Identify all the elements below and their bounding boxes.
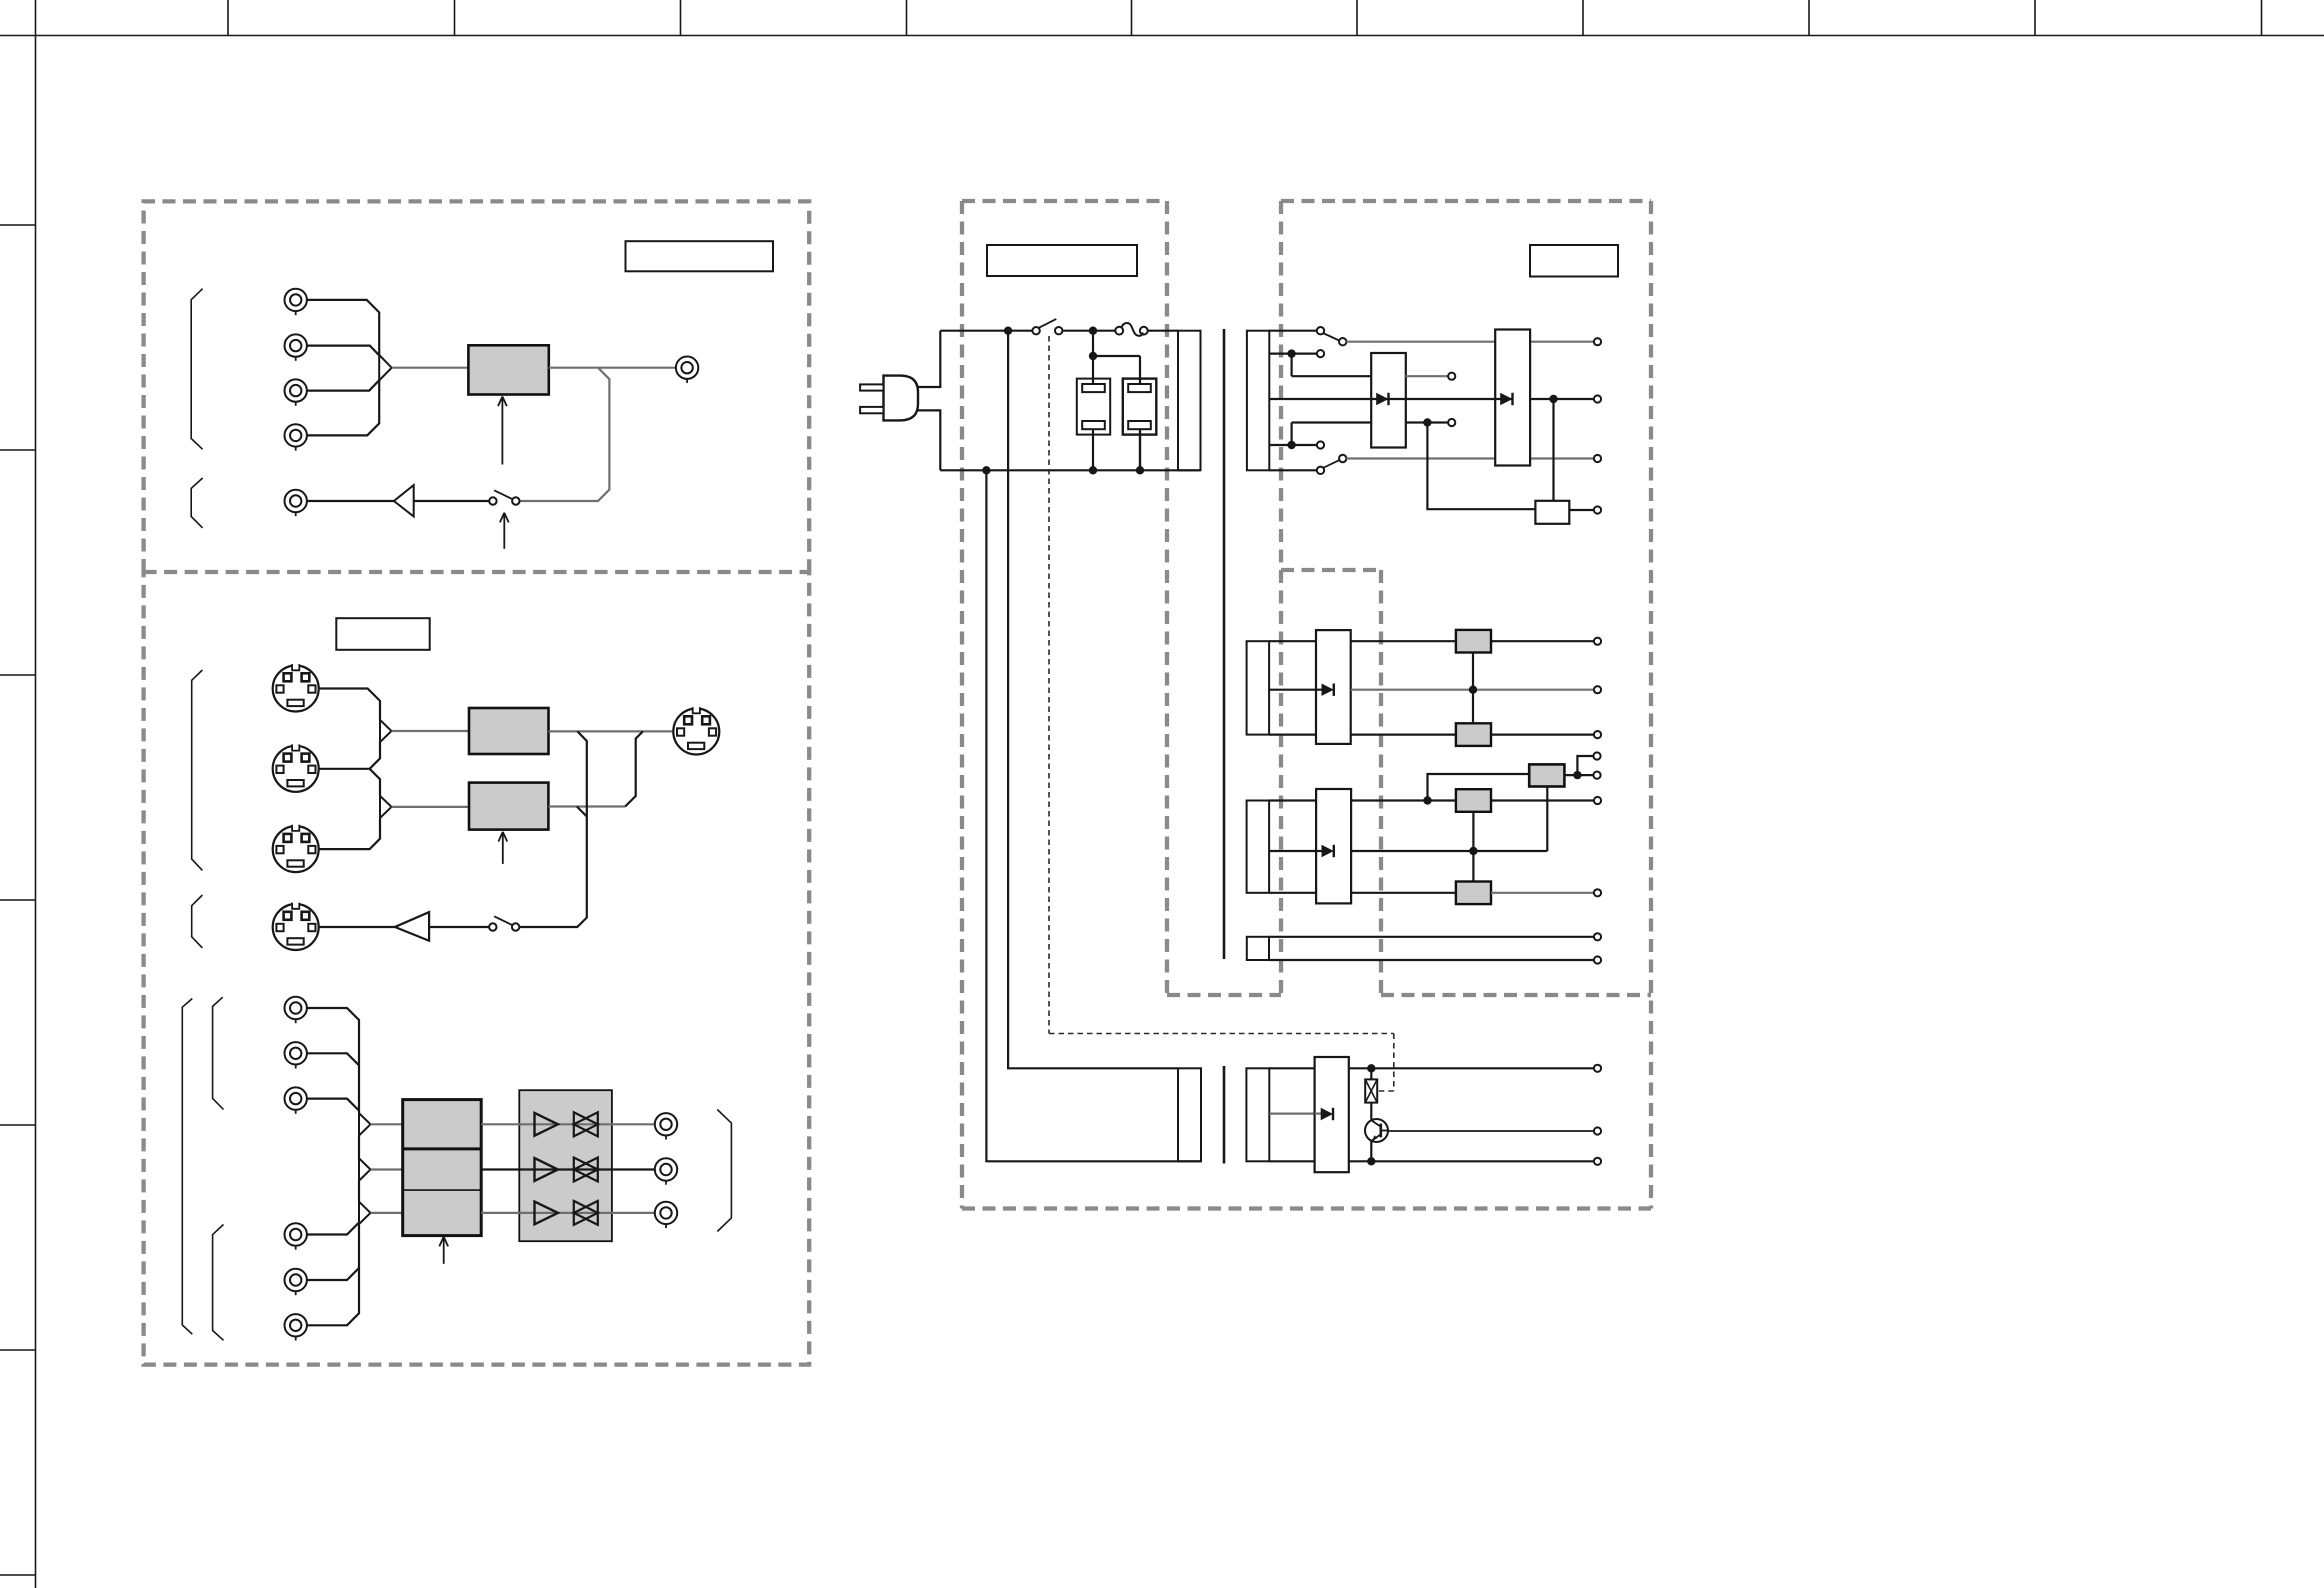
wire: D3 centre out xyxy=(1351,689,1594,691)
wire: rec switch to S buffer xyxy=(429,926,489,928)
junction: regulator D out xyxy=(1573,771,1581,779)
wire: secondary4 top out xyxy=(1269,936,1593,938)
wire: surge absorber feed xyxy=(1093,331,1140,384)
wire: C to out join xyxy=(625,731,643,806)
transistor Q1 xyxy=(1365,1119,1388,1161)
RCA jack: video monitor out xyxy=(676,357,698,383)
wire: S input 2 split to selectors xyxy=(319,742,380,796)
junction: D2 output xyxy=(1549,395,1557,403)
RCA jack: video input 4 xyxy=(285,424,307,450)
rectifier block D4 xyxy=(1316,789,1351,903)
bus wire: component selector bus xyxy=(358,1136,360,1202)
selector merge symbol: component Pb xyxy=(359,1158,371,1180)
S-video jack: input 3 xyxy=(273,825,319,872)
regulator box D xyxy=(1529,764,1564,786)
RCA jack: component input B3 xyxy=(285,1314,307,1340)
terminal: tap 2 xyxy=(1317,350,1324,357)
wire: secondary3 centre (into rectifier) xyxy=(1269,850,1547,852)
buffer amp: component Y xyxy=(535,1113,558,1136)
wire: video input 2 to selector bus xyxy=(307,346,379,356)
wire: secondary1 top tap xyxy=(1269,330,1317,332)
buffer amp: S-video rec out xyxy=(395,912,429,941)
wire: T2 secondary bottom xyxy=(1269,1160,1593,1162)
terminal: secondary2 bottom out xyxy=(1594,731,1601,738)
wire: filter link secondary3 xyxy=(1472,812,1474,882)
RCA jack: component input A3 xyxy=(285,1087,307,1113)
diode: D4 xyxy=(1316,845,1334,857)
wire: S input 3 to selector bus xyxy=(319,818,380,849)
junction: tap 2 xyxy=(1287,349,1295,357)
wire: component Y output row xyxy=(481,1123,655,1125)
wire: component input A2 to bus xyxy=(307,1053,359,1065)
terminal: secondary4 bottom xyxy=(1594,956,1601,963)
brace: S-video inputs group xyxy=(192,670,203,870)
wire: C selector to switch block xyxy=(392,806,470,808)
wire: AC line top xyxy=(940,330,1178,332)
wire: secondary3 bottom xyxy=(1269,892,1456,894)
RCA jack: video input 3 xyxy=(285,379,307,405)
terminal: regulator out xyxy=(1594,506,1601,513)
terminal: regulator D out upper xyxy=(1593,752,1600,759)
regulator box xyxy=(1535,501,1593,524)
wire: Q1 base out xyxy=(1388,1130,1593,1132)
filter box: secondary3 top xyxy=(1456,789,1491,812)
transformer T2 core xyxy=(1223,1066,1226,1164)
transformer T1 secondary winding 4 xyxy=(1247,937,1269,960)
wire: component Pr output row xyxy=(481,1212,655,1214)
RCA jack: component input B1 xyxy=(285,1223,307,1249)
junction: AC top standby tap xyxy=(1004,327,1012,335)
AC plug xyxy=(860,376,918,421)
junction: surge absorber tee xyxy=(1089,352,1097,360)
attenuator symbol: component Y xyxy=(574,1112,598,1136)
terminal: standby out top xyxy=(1594,1065,1601,1072)
transformer T2 secondary winding xyxy=(1246,1068,1269,1161)
wire: selector to video switch block xyxy=(392,367,469,369)
brace: component outputs group xyxy=(717,1110,731,1232)
wire: secondary1 centre tap xyxy=(1269,398,1371,400)
rectifier block D5 xyxy=(1315,1057,1349,1172)
label box: S-video section title xyxy=(336,618,429,650)
wire: video switch to monitor out jack xyxy=(549,367,676,369)
S-video jack: input 2 xyxy=(273,744,319,791)
wire: top tap to regulator D xyxy=(1428,774,1530,801)
wire: S out branch to rec switch xyxy=(520,731,587,927)
wire: Pb selector to switch block xyxy=(371,1168,403,1170)
switch: secondary bottom select xyxy=(1317,455,1347,474)
wire: AC line bottom xyxy=(940,469,1200,471)
wire: video input 3 to selector bus xyxy=(307,380,379,390)
wire: D2 to regulator xyxy=(1552,399,1554,501)
junction: tap 4 xyxy=(1287,441,1295,449)
wire: component input A3 to bus xyxy=(307,1099,359,1111)
terminal: D1 upper out xyxy=(1448,373,1455,380)
brace: component inputs outer group xyxy=(182,999,192,1335)
filter box: secondary2 bottom xyxy=(1456,723,1491,746)
junction: secondary3 centre xyxy=(1469,847,1477,855)
rectifier block D2 xyxy=(1495,330,1530,466)
wire: secondary1 bottom tap xyxy=(1269,469,1317,471)
S-video jack: rec out xyxy=(273,903,319,950)
terminal: secondary3 bottom out xyxy=(1594,889,1601,896)
selector merge symbol: video bus xyxy=(379,355,392,380)
brace: component inputs group 1 xyxy=(213,997,224,1109)
filter box: secondary3 bottom xyxy=(1456,882,1491,905)
wire: secondary3 bottom out xyxy=(1491,892,1593,894)
wire: secondary2 bottom xyxy=(1269,733,1593,735)
terminal: AC out top xyxy=(1594,338,1601,345)
buffer amp: video rec out xyxy=(394,485,414,516)
wire: secondary4 bottom out xyxy=(1269,959,1593,961)
S-video jack: monitor out xyxy=(673,707,719,754)
terminal: main DC out xyxy=(1594,395,1601,402)
wire: video input 1 to selector bus xyxy=(307,300,379,355)
RCA jack: component input A1 xyxy=(285,997,307,1023)
transformer T1 secondary winding 1 xyxy=(1247,331,1269,471)
RCA jack: video input 2 xyxy=(285,334,307,360)
wire: video input 4 to selector bus xyxy=(307,380,379,435)
label box: video section title xyxy=(626,241,774,271)
junction: standby positive xyxy=(1367,1064,1375,1072)
wire: component Pb output row xyxy=(481,1168,655,1170)
brace: video rec output group xyxy=(191,478,202,528)
buffer amp: component Pb xyxy=(535,1158,558,1181)
attenuator symbol: component Pb xyxy=(574,1158,598,1182)
relay contact symbol xyxy=(1365,1068,1377,1119)
linkage dashed line: power switch to relay xyxy=(1049,336,1394,1091)
wire: component input B1 to bus xyxy=(307,1223,359,1235)
control arrow: video selector xyxy=(498,397,507,465)
transformer T1 core xyxy=(1223,329,1226,959)
wire: secondary3 top xyxy=(1269,799,1593,801)
junction: D3 centre out xyxy=(1469,686,1477,694)
attenuator symbol: component Pr xyxy=(574,1201,598,1225)
RCA jack: component out Pr xyxy=(655,1202,677,1228)
wire: D1 output upper xyxy=(1406,375,1449,377)
wire: buffer to video rec jack xyxy=(307,500,394,502)
fuse: AC line xyxy=(1115,323,1147,336)
wire: switched AC out bottom xyxy=(1346,457,1593,459)
brace: S-video rec output group xyxy=(192,895,203,948)
wire: S buffer to rec connector xyxy=(319,926,395,928)
RCA jack: component out Pb xyxy=(655,1158,677,1184)
wire: secondary1 tap 2 xyxy=(1269,354,1371,377)
terminal: D1 lower out xyxy=(1448,419,1455,426)
transformer T2 primary winding xyxy=(1178,1068,1201,1161)
switch block: component selector (3 sections) xyxy=(403,1100,482,1236)
switch: video rec on/off xyxy=(489,490,519,504)
surge absorber: MOV 1 xyxy=(1077,379,1110,471)
dashed box: composite video input section xyxy=(144,201,810,572)
wire: standby primary feed right xyxy=(1008,331,1178,1069)
terminal: AC out bottom xyxy=(1594,455,1601,462)
wire: filter link secondary2 xyxy=(1472,653,1474,724)
switch block: composite video selector xyxy=(468,345,548,394)
junction: secondary3 top tap xyxy=(1423,796,1431,804)
selector merge symbol: component Y xyxy=(359,1113,371,1135)
transformer T1 secondary winding 2 xyxy=(1247,641,1270,734)
S-video jack: input 1 xyxy=(273,664,319,711)
terminal: regulator D out lower xyxy=(1593,772,1600,779)
terminal: tap 4 xyxy=(1317,441,1324,448)
wire: Y selector to switch block xyxy=(392,730,470,732)
junction: MOV 2 bottom xyxy=(1136,466,1144,474)
selector merge symbol: S-video Y xyxy=(380,720,392,742)
RCA jack: component input B2 xyxy=(285,1269,307,1295)
wire: AC plug live lead xyxy=(918,331,940,387)
diode: D3 xyxy=(1316,684,1334,696)
rectifier block D3 xyxy=(1316,630,1351,744)
dashed box: power supply section outline xyxy=(962,201,1651,1209)
junction: MOV 1 bottom xyxy=(1089,466,1097,474)
wire: Pr selector to switch block xyxy=(371,1212,403,1214)
label box: power secondary title xyxy=(1530,245,1618,277)
filter box: secondary2 top xyxy=(1456,630,1491,653)
control arrow: video rec switch xyxy=(500,513,509,549)
switch: S-video rec on/off xyxy=(489,916,519,930)
diode: D1 xyxy=(1376,393,1388,405)
wire: component input B2 to bus xyxy=(307,1268,359,1280)
brace: video inputs group xyxy=(191,289,202,450)
wire: AC plug neutral lead xyxy=(918,410,940,470)
dashed box: S-video and component video section xyxy=(144,572,810,1365)
diode: D5 xyxy=(1315,1108,1333,1120)
label box: power supply title xyxy=(987,245,1137,276)
wire: rec switch to buffer xyxy=(414,500,490,502)
junction: AC top surge tap xyxy=(1089,327,1097,335)
wire: video out branch to rec switch xyxy=(520,368,610,501)
selector merge symbol: component Pr xyxy=(359,1202,371,1224)
RCA jack: video rec out xyxy=(285,490,307,516)
wire: S input 1 to selector bus xyxy=(319,689,380,720)
wire: C switch output xyxy=(548,805,625,807)
transformer T1 secondary winding 3 xyxy=(1247,801,1270,893)
wire: T2 secondary top xyxy=(1269,1067,1593,1069)
wire: switched AC out top xyxy=(1346,341,1593,343)
dashed box: inner rectifier sub-section xyxy=(1281,570,1381,995)
RCA jack: video input 1 xyxy=(285,289,307,315)
wire: D1 output lower xyxy=(1406,423,1536,510)
junction: standby negative xyxy=(1367,1157,1375,1165)
selector merge symbol: S-video C xyxy=(380,796,392,818)
wire: centre to regulator D bottom xyxy=(1546,787,1548,852)
diode: D2 xyxy=(1371,393,1593,405)
switch: power on/off xyxy=(1032,319,1062,335)
RCA jack: component out Y xyxy=(655,1113,677,1139)
brace: component inputs group 2 xyxy=(213,1225,224,1341)
terminal: secondary2 top out xyxy=(1594,638,1601,645)
wire: Y selector to switch block xyxy=(371,1123,403,1125)
switch block: S-video Y xyxy=(469,708,549,754)
buffer amp: component Pr xyxy=(535,1202,558,1225)
wire: T2 secondary centre xyxy=(1269,1112,1314,1114)
amplifier block: component output drivers xyxy=(519,1090,612,1241)
terminal: standby out base xyxy=(1594,1127,1601,1134)
wire: regulator D output xyxy=(1564,756,1593,775)
surge absorber: MOV 2 xyxy=(1123,379,1157,471)
wire: standby primary feed left xyxy=(986,470,1201,1161)
wire: component input A1 to bus xyxy=(307,1008,359,1113)
switch block: S-video C xyxy=(469,783,548,830)
terminal: secondary4 top xyxy=(1594,933,1601,940)
junction: D1 lower out xyxy=(1423,418,1431,426)
rectifier block D1 xyxy=(1371,353,1406,448)
terminal: standby out bottom xyxy=(1594,1158,1601,1165)
wire: Y switch to S out connector xyxy=(549,730,674,732)
wire: secondary2 top xyxy=(1269,640,1593,642)
transformer T1 primary winding xyxy=(1178,331,1201,471)
wire: secondary1 tap 4 xyxy=(1269,423,1371,446)
wire: component input B3 to bus xyxy=(307,1224,359,1325)
RCA jack: component input A2 xyxy=(285,1042,307,1068)
terminal: secondary2 centre out xyxy=(1594,686,1601,693)
wire: secondary2 centre (into rectifier) xyxy=(1269,689,1316,691)
switch: secondary top select xyxy=(1317,327,1347,345)
junction: AC bottom standby tap xyxy=(982,466,990,474)
terminal: secondary3 top out xyxy=(1594,797,1601,804)
control arrow: component selector xyxy=(439,1237,448,1264)
control arrow: S-video switch block xyxy=(498,832,507,864)
